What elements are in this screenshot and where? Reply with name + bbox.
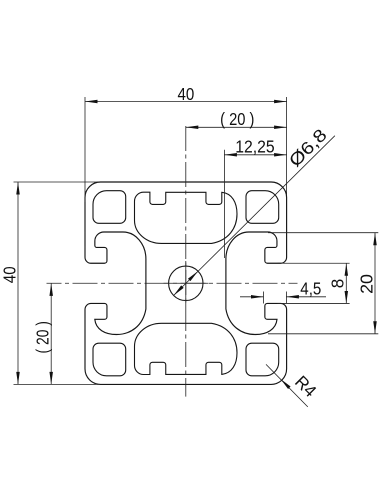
svg-text:4,5: 4,5 [300, 278, 321, 298]
svg-text:( 20 ): ( 20 ) [33, 321, 53, 353]
svg-text:( 20 ): ( 20 ) [220, 109, 254, 129]
svg-text:R4: R4 [291, 372, 321, 402]
svg-text:12,25: 12,25 [235, 136, 274, 156]
svg-text:40: 40 [178, 84, 195, 104]
svg-text:20: 20 [356, 274, 376, 294]
svg-text:8: 8 [328, 279, 348, 289]
svg-text:Ø6,8: Ø6,8 [285, 125, 331, 171]
svg-text:40: 40 [0, 266, 20, 283]
